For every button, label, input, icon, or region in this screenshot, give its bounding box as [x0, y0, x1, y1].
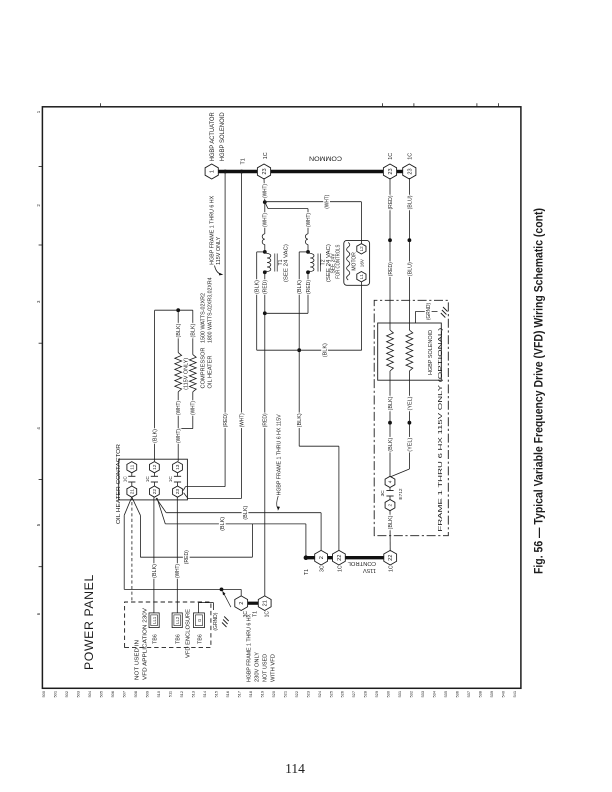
wire hex23 straight to TB6 LL2	[176, 497, 178, 613]
wire bus hex23c to BLU row	[408, 177, 410, 179]
wire BLK row T2 y299 to corner	[298, 252, 300, 446]
wire hex21 diag to row140	[132, 497, 141, 515]
leader to RED row	[215, 266, 222, 275]
wire RED row from C2 left	[307, 272, 309, 313]
svg-text:3: 3	[36, 300, 41, 303]
label (BLK) on line1	[242, 505, 249, 521]
label (WHT) on x590	[323, 194, 330, 210]
wire B2 to coil	[308, 252, 310, 254]
VFD enclosure dashed box	[125, 602, 211, 647]
label (WHT) hex23-A	[261, 183, 267, 199]
contactor terminal hexagon 22	[150, 486, 160, 497]
svg-text:532: 532	[409, 691, 414, 698]
svg-text:23: 23	[262, 168, 268, 174]
wire junction A to loop T1	[264, 202, 266, 234]
motor box	[344, 240, 370, 285]
svg-text:(RED): (RED)	[223, 413, 229, 427]
svg-text:TB6: TB6	[176, 634, 182, 644]
connector hexagon 1 HGBP actuator	[205, 164, 218, 179]
label (BLK) row 299 right	[296, 279, 302, 295]
wire loop to junction B2	[307, 245, 309, 252]
connector hexagon 22 1C	[333, 550, 346, 565]
svg-text:510: 510	[156, 690, 161, 697]
svg-text:HGBP FRAME 1 THRU 6 HX: HGBP FRAME 1 THRU 6 HX	[209, 195, 215, 265]
wire inside box row409 leads	[408, 371, 410, 380]
svg-text:16V: 16V	[360, 258, 365, 267]
svg-text:541: 541	[512, 691, 517, 698]
svg-text:526: 526	[340, 691, 345, 698]
label (RED) on row 225	[222, 413, 228, 429]
wire WHT row y241 from bus to contactor	[240, 172, 242, 499]
label (WHT) on T1 primary lead	[262, 212, 268, 228]
wire G to ground	[198, 603, 200, 613]
svg-text:(WHT): (WHT)	[176, 401, 182, 415]
svg-text:1C: 1C	[168, 476, 174, 483]
svg-text:(WHT): (WHT)	[175, 564, 181, 578]
svg-text:L1: L1	[359, 274, 364, 280]
label (BLK) res2	[190, 323, 196, 339]
contactor terminal hexagon 12	[150, 462, 160, 473]
wire res1 left lead	[177, 392, 179, 429]
svg-text:G: G	[197, 619, 202, 622]
wire RED drop to contactor hex23	[186, 486, 226, 488]
svg-text:(BLU): (BLU)	[407, 195, 413, 209]
svg-text:535: 535	[443, 691, 448, 698]
wire B to coil	[265, 252, 267, 254]
label (WHT) on T2 primary lead	[305, 212, 311, 228]
wire bypass row y154 to contactor hex12	[154, 310, 156, 461]
svg-text:(BLK): (BLK)	[388, 437, 394, 451]
connector hexagon 2 3C	[315, 550, 328, 565]
wire row y252 to line2	[251, 524, 253, 557]
svg-text:4: 4	[388, 480, 394, 483]
svg-text:MOTOR: MOTOR	[352, 252, 358, 271]
wire RED row y264 long	[264, 272, 266, 597]
connector hexagon 23 IC (RED row)	[383, 164, 396, 179]
label (RED) right of box	[387, 261, 393, 277]
svg-text:(BLK): (BLK)	[388, 396, 394, 410]
node junction BLK row	[297, 348, 301, 352]
svg-text:1: 1	[210, 170, 216, 173]
svg-text:6: 6	[36, 612, 41, 615]
wire solenoid to RED row right	[389, 178, 391, 323]
svg-text:518: 518	[248, 691, 253, 698]
svg-text:504: 504	[87, 690, 92, 697]
svg-text:520: 520	[271, 690, 276, 697]
svg-text:1C: 1C	[337, 565, 343, 572]
svg-text:(BLK): (BLK)	[153, 429, 159, 443]
label (RED) near bus	[387, 195, 393, 211]
node big dot T1 on 115V bus	[304, 555, 309, 560]
node junction dot leader target	[220, 588, 224, 592]
svg-text:(BLK): (BLK)	[255, 280, 261, 294]
node junction C T1	[263, 270, 267, 274]
svg-text:4: 4	[36, 427, 41, 430]
svg-text:(RED): (RED)	[263, 280, 269, 294]
wire grnd elbow	[213, 603, 215, 610]
node splice dot BLK row	[388, 421, 392, 425]
svg-text:524: 524	[317, 690, 322, 697]
wire res bottom row y178 to contactor hex13	[177, 429, 179, 462]
connector hexagon 23 IC (BLU row)	[403, 164, 416, 179]
wire YEL diagonal to hex4	[391, 469, 410, 477]
svg-text:VFD APPLICATION 230V: VFD APPLICATION 230V	[143, 607, 149, 680]
svg-text:TB6: TB6	[197, 634, 203, 644]
label (BLK) on line2	[219, 516, 226, 532]
label (YEL) on YEL row	[406, 437, 412, 453]
wire diag junction A to T2 feed	[265, 202, 268, 209]
border frame	[42, 107, 521, 689]
wire res1 right lead	[177, 310, 179, 352]
svg-text:(BLK): (BLK)	[152, 564, 158, 578]
svg-text:HGBP SOLENOID: HGBP SOLENOID	[219, 112, 226, 162]
wire line2 vertical x268	[165, 523, 306, 525]
svg-text:1C: 1C	[389, 565, 395, 572]
svg-text:115V: 115V	[363, 567, 376, 573]
svg-text:(BLK): (BLK)	[220, 517, 226, 531]
svg-text:1C: 1C	[388, 153, 394, 160]
svg-text:POWER PANEL: POWER PANEL	[82, 574, 96, 670]
connector hexagon 21 (1C) TB area	[258, 596, 271, 611]
label (BLK) before hex2	[387, 515, 393, 531]
node junction dot T1 row WHT	[240, 170, 244, 174]
svg-text:538: 538	[478, 691, 483, 698]
svg-text:1C: 1C	[145, 476, 151, 483]
wire resistor right junction bar	[155, 309, 193, 311]
svg-text:(BLK): (BLK)	[176, 323, 182, 337]
svg-text:(BLK): (BLK)	[388, 515, 394, 529]
wire thick segment hex23b-hex23c	[394, 170, 406, 173]
svg-text:509: 509	[144, 691, 149, 698]
svg-text:(RED): (RED)	[388, 195, 394, 209]
svg-text:527: 527	[351, 691, 356, 698]
svg-text:1800 WATTS-02XR3,02XR4: 1800 WATTS-02XR3,02XR4	[208, 277, 214, 343]
connector loop symbol T2	[305, 234, 308, 245]
svg-text:22: 22	[152, 489, 158, 495]
svg-text:HGBP SOLENOID: HGBP SOLENOID	[428, 330, 434, 375]
svg-text:13: 13	[175, 464, 181, 470]
wire BLK L-path row y338 to bus hex22	[338, 446, 340, 551]
label (BLK) row 299 left	[296, 413, 302, 429]
contactor terminal hexagon 11	[127, 462, 137, 473]
wire COMMON bus (thick)	[212, 170, 390, 173]
svg-text:22: 22	[388, 555, 394, 561]
wire WHT feed vertical x590	[265, 201, 362, 203]
wire hex21 diag to row124	[124, 497, 132, 515]
svg-text:23: 23	[407, 168, 413, 174]
svg-text:514: 514	[202, 690, 207, 697]
svg-text:515: 515	[213, 691, 218, 698]
svg-text:T1: T1	[304, 569, 310, 575]
svg-text:23: 23	[388, 168, 394, 174]
svg-text:(WHT): (WHT)	[306, 213, 312, 227]
svg-text:(BLK): (BLK)	[297, 413, 303, 427]
svg-text:TB6: TB6	[153, 634, 159, 644]
HGBP solenoid box	[378, 323, 442, 380]
node splice dot BLU	[408, 238, 412, 242]
label (WHT) to LL2	[174, 563, 180, 579]
svg-text:1C: 1C	[264, 611, 270, 618]
terminal box TB6 LL1	[149, 613, 159, 628]
transformer T2 core	[317, 254, 319, 272]
transformer T2 primary coil	[310, 254, 314, 272]
svg-text:1C: 1C	[122, 476, 128, 483]
leader arrow to line1	[277, 496, 279, 508]
svg-text:536: 536	[455, 691, 460, 698]
svg-text:1C: 1C	[263, 152, 269, 159]
svg-text:VFD ENCLOSURE: VFD ENCLOSURE	[186, 608, 192, 658]
wire RED tie vertical	[265, 312, 308, 314]
wire hex22 diag to line2	[157, 498, 165, 524]
svg-text:(WHT): (WHT)	[263, 213, 269, 227]
label (WHT) res1	[175, 400, 181, 416]
svg-text:2: 2	[319, 556, 325, 559]
svg-text:506: 506	[110, 691, 115, 698]
svg-text:OIL HEATER: OIL HEATER	[208, 355, 214, 388]
label (BLK) at solenoid box	[387, 396, 393, 412]
motor winding wavy line	[347, 242, 350, 280]
wire BLK row T1 y256 to corner	[256, 252, 258, 350]
label (WHT) on row 241	[238, 413, 244, 429]
label (WHT) res2	[190, 400, 196, 416]
connector loop symbol T1	[262, 234, 265, 245]
svg-text:500: 500	[41, 690, 46, 697]
page number	[0, 761, 590, 777]
wire T2 feed horizontal to loop	[307, 209, 309, 234]
wire BLK L-path down x345	[299, 445, 339, 447]
terminal box TB6 G	[194, 613, 205, 628]
zone ticks top edge	[39, 166, 43, 168]
ground symbol chassis	[441, 313, 446, 318]
wire res2 right lead	[192, 310, 194, 354]
contactor terminal hexagon 13	[173, 462, 183, 473]
resistor heater row 1	[175, 353, 182, 392]
ground symbol TB6	[222, 623, 227, 628]
svg-text:OIL HEATER CONTACTOR: OIL HEATER CONTACTOR	[116, 444, 122, 524]
svg-text:21: 21	[263, 600, 269, 606]
wire L1 to box edge	[360, 282, 362, 285]
label (BLK) to LL1	[151, 563, 157, 579]
svg-text:(RED): (RED)	[388, 262, 394, 276]
svg-text:(YEL): (YEL)	[407, 396, 413, 410]
svg-text:529: 529	[374, 691, 379, 698]
wire 115V CONTROL bus (thick)	[306, 556, 391, 559]
contactor terminal hexagon 23	[173, 486, 183, 497]
zone ticks right edge	[100, 103, 102, 107]
svg-text:(GRND): (GRND)	[426, 303, 432, 320]
dash-dot box FRAME 1 THRU 6 HX 115V ONLY (OPTIONAL)	[374, 300, 448, 535]
wire line1 vertical x279	[166, 512, 321, 514]
node splice dot YEL row	[408, 421, 412, 425]
svg-text:519: 519	[259, 691, 264, 698]
contact symbol E712	[389, 496, 391, 500]
svg-text:508: 508	[133, 691, 138, 698]
wire line1 row y321 to bus hex 2	[320, 513, 322, 552]
svg-text:1: 1	[36, 110, 41, 113]
svg-text:2: 2	[388, 503, 394, 506]
svg-text:507: 507	[121, 691, 126, 698]
terminal box TB6 LL2	[172, 613, 182, 628]
svg-text:E712: E712	[398, 488, 404, 500]
svg-text:534: 534	[432, 690, 437, 697]
svg-text:COMPRESSOR: COMPRESSOR	[201, 347, 207, 388]
wire diag WHT to hex 23	[184, 493, 188, 499]
svg-text:NOT USED: NOT USED	[262, 654, 268, 682]
wire coil to C	[265, 271, 267, 272]
wire motor L1 row	[361, 285, 363, 350]
svg-text:FOR CONTROLS: FOR CONTROLS	[336, 244, 342, 278]
svg-text:T1: T1	[240, 158, 246, 164]
wire YEL dot to solenoid box	[408, 380, 410, 423]
solenoid coil zigzag BLU-YEL	[406, 330, 413, 371]
svg-text:(BLK): (BLK)	[323, 343, 329, 357]
label (RED) on x234	[183, 549, 190, 565]
wire hex22 diag to line1	[156, 498, 166, 513]
wire hex22 straight to TB6 LL1	[153, 497, 155, 613]
wire thick bar between hex2 and hex21	[248, 602, 259, 605]
svg-text:525: 525	[328, 691, 333, 698]
svg-text:1C: 1C	[407, 153, 413, 160]
label (RED) row 308	[305, 279, 311, 295]
wire hex21 dashed to VFD enclosure	[131, 499, 133, 601]
connector hexagon 23 IC top	[257, 164, 270, 179]
label (GRND)	[425, 302, 432, 321]
svg-text:531: 531	[397, 691, 402, 698]
node junction resistor right	[176, 308, 180, 312]
node junction RED tie	[263, 311, 267, 315]
svg-text:539: 539	[489, 691, 494, 698]
wire loop to junction B	[264, 245, 266, 252]
transformer T1 primary coil	[267, 254, 271, 272]
svg-text:530: 530	[386, 690, 391, 697]
label (RED) row 264 mid	[262, 413, 268, 429]
svg-text:3C: 3C	[380, 490, 386, 497]
svg-text:512: 512	[179, 691, 184, 698]
svg-text:505: 505	[98, 691, 103, 698]
node junction C2 T2	[306, 270, 310, 274]
svg-text:501: 501	[52, 691, 57, 698]
label (BLU) right of box	[406, 261, 412, 277]
svg-text:(YEL): (YEL)	[407, 437, 413, 451]
svg-text:537: 537	[466, 691, 471, 698]
label (YEL) at solenoid box	[406, 396, 412, 412]
svg-text:522: 522	[294, 691, 299, 698]
connector hexagon 2 E712	[385, 500, 395, 511]
svg-text:3C: 3C	[320, 565, 326, 572]
svg-text:12: 12	[152, 464, 158, 470]
wire WHT from hex23 to junction A	[263, 178, 266, 202]
svg-text:(BLU): (BLU)	[407, 262, 413, 276]
svg-text:533: 533	[420, 691, 425, 698]
svg-text:HGBP FRAME 1 THRU 6 HX: HGBP FRAME 1 THRU 6 HX	[246, 613, 252, 682]
label (WHT) to hex13	[175, 428, 181, 444]
wire res2 left lead	[192, 392, 194, 429]
transformer T1 core	[274, 254, 276, 272]
wire diag RED to hex 23	[183, 487, 185, 491]
svg-text:(115V ONLY): (115V ONLY)	[184, 357, 190, 389]
svg-text:(RED): (RED)	[306, 280, 312, 294]
wire resistor left junction bar	[178, 428, 193, 430]
wire WHT drop to contactor hex23	[188, 498, 241, 500]
solenoid coil zigzag RED-BLK	[387, 330, 394, 371]
svg-text:NOT USED IN: NOT USED IN	[135, 640, 141, 680]
svg-text:502: 502	[64, 691, 69, 698]
svg-text:(RED): (RED)	[263, 413, 269, 427]
contactor box	[119, 459, 188, 500]
svg-text:Fig. 56 — Typical Variable Fre: Fig. 56 — Typical Variable Frequency Dri…	[532, 208, 546, 574]
label (BLK) bypass	[151, 428, 157, 444]
label (BLK) res1	[175, 323, 181, 339]
svg-text:521: 521	[282, 691, 287, 698]
wire T2 feed vertical	[268, 208, 308, 210]
svg-text:11: 11	[130, 464, 136, 469]
svg-text:COMMON: COMMON	[309, 155, 342, 162]
node splice dot RED	[388, 238, 392, 242]
node junction A	[263, 200, 267, 204]
svg-text:(GRND): (GRND)	[213, 612, 219, 630]
wire grnd vertical	[415, 311, 437, 313]
wire vertical x202 to TB hexagon 2	[124, 588, 241, 590]
svg-text:CONTROL: CONTROL	[347, 560, 376, 566]
leader arrow to junction dot	[223, 592, 231, 607]
svg-text:(BLK): (BLK)	[191, 323, 197, 337]
wire row y124 to corner	[123, 515, 125, 589]
svg-text:528: 528	[363, 691, 368, 698]
contactor terminal hexagon 21	[127, 486, 137, 497]
svg-text:(WHT): (WHT)	[262, 184, 268, 198]
wire hex4 to BLK dot	[389, 423, 391, 477]
wire BLK jog from B2 up	[299, 251, 308, 253]
wire solenoid to BLU row right	[408, 178, 410, 323]
wire BLK dot to solenoid box	[389, 380, 391, 423]
node junction B2 T2	[306, 250, 310, 254]
svg-text:(WHT): (WHT)	[325, 194, 331, 208]
wire bus hex22 to E712 hex2	[389, 511, 391, 552]
node junction dot T-row RED	[223, 170, 227, 174]
svg-text:(WHT): (WHT)	[176, 429, 182, 443]
svg-text:(BLK): (BLK)	[297, 280, 303, 294]
wire BLK jog from B up	[257, 251, 265, 253]
svg-text:(RED): (RED)	[184, 550, 190, 564]
wire vertical x234 (RED) down	[140, 556, 252, 558]
svg-text:511: 511	[167, 691, 172, 697]
svg-text:(SEE 24 VAC): (SEE 24 VAC)	[284, 244, 290, 282]
wire inside box row390 leads	[389, 371, 391, 380]
terminal hexagon L2	[357, 244, 366, 254]
svg-text:503: 503	[75, 691, 80, 698]
svg-text:1500 WATTS-02XR2: 1500 WATTS-02XR2	[201, 293, 207, 343]
svg-text:5: 5	[36, 523, 41, 526]
label (BLK) on x441	[321, 342, 328, 358]
wire line2 row y305 to bus T1 dot	[305, 524, 307, 558]
svg-text:LL1: LL1	[152, 616, 157, 624]
svg-text:523: 523	[305, 691, 310, 698]
label (RED) row 264 right	[262, 279, 268, 295]
contactor contact symbols	[131, 482, 133, 486]
terminal hexagon L1	[357, 272, 366, 282]
svg-text:23: 23	[175, 489, 181, 495]
wire grnd from box right	[414, 312, 416, 324]
node junction B T1	[263, 250, 267, 254]
svg-text:T1: T1	[253, 611, 259, 617]
resistor heater row 2	[189, 355, 196, 392]
svg-text:230V ONLY: 230V ONLY	[254, 651, 260, 682]
wire row y241 into hexagon 2	[240, 589, 242, 597]
svg-text:HGBP FRAME 1 THRU 6 HX 115V: HGBP FRAME 1 THRU 6 HX 115V	[277, 414, 283, 496]
wire row y140 to corner x234	[139, 515, 141, 557]
label (BLK) after hex4	[387, 437, 393, 453]
svg-text:L2: L2	[359, 246, 364, 252]
